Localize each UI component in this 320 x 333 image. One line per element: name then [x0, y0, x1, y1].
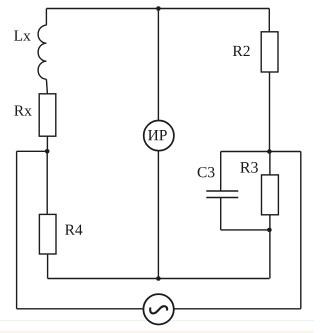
faint rule line: [0, 320, 314, 321]
wire detector branch upper: [157, 9, 159, 121]
wire box bottom: [221, 229, 270, 231]
wire left-branch top: [45, 9, 47, 26]
label Lx: [14, 30, 31, 40]
wire Lx to Rx: [46, 79, 47, 94]
bottom page strip: [0, 331, 314, 333]
indicator ИР (detector) circle: [144, 121, 174, 151]
wire bottom right: [174, 308, 301, 310]
AC source circle: [143, 294, 173, 324]
junction dot top middle: [156, 6, 161, 11]
wire node A to R4: [46, 151, 48, 214]
wire bottom left: [17, 308, 144, 310]
wire node A to left outer: [17, 150, 48, 152]
wire Rx to node A: [46, 136, 48, 151]
wire R2 to node B: [269, 72, 271, 152]
wire R3 to middle horizontal: [269, 215, 271, 279]
resistor R3: [262, 175, 279, 215]
label R3: [240, 162, 258, 173]
wire right outer vertical: [300, 152, 302, 309]
resistor R2: [261, 32, 278, 72]
label Rx: [14, 105, 31, 115]
inductor Lx: [38, 25, 46, 79]
wire middle horizontal: [48, 278, 270, 280]
wire R4 to middle horizontal: [47, 254, 49, 279]
wire detector branch lower: [157, 151, 159, 279]
capacitor C3 plate bottom: [206, 197, 238, 199]
label R4: [65, 225, 82, 235]
wire left outer vertical: [16, 151, 18, 308]
capacitor C3 plate top: [206, 190, 238, 192]
label R2: [233, 46, 250, 56]
resistor R4: [39, 214, 56, 254]
wire top horizontal: [46, 8, 269, 10]
resistor Rx: [39, 94, 56, 136]
junction bottom middle: [156, 276, 161, 281]
wire right-branch top: [268, 9, 270, 32]
junction node A: [45, 149, 50, 154]
wire node B horizontal: [221, 151, 301, 153]
junction box bottom: [267, 228, 272, 233]
wire node B to R3: [269, 152, 271, 175]
label C3: [198, 167, 215, 177]
junction node B: [267, 149, 272, 154]
AC source sine symbol: [150, 306, 167, 313]
wire C3 branch lower: [220, 198, 222, 230]
indicator ИР label: [148, 130, 167, 140]
wire C3 branch upper: [220, 152, 222, 191]
